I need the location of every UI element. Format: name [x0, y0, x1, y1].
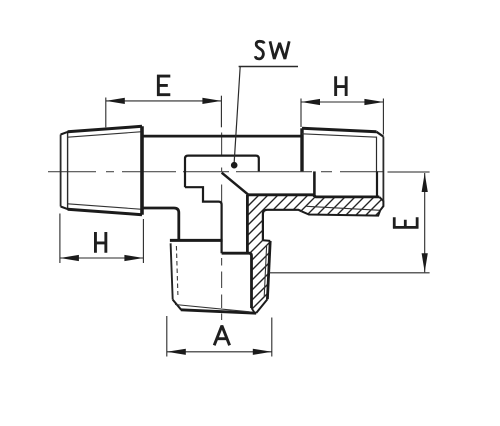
left stud: face line	[60, 135, 62, 207]
dimension H (top right): arrows	[301, 99, 320, 105]
right stud: right edge	[382, 137, 384, 202]
vertical centerline	[221, 133, 223, 321]
bottom stud: hidden thread (dashed)	[176, 246, 178, 295]
SW hex block outline	[185, 156, 259, 188]
bottom stud: bottom edge	[181, 310, 256, 313]
label E (right, rotated)	[393, 217, 419, 228]
left stud: thread crest top	[68, 132, 142, 138]
bottom stud: bottom-left chamfer	[173, 300, 182, 310]
bottom stud bore chamfer	[252, 308, 255, 313]
right stud: thread crest line	[302, 134, 377, 137]
right stud thread crest bottom (section)	[302, 210, 380, 215]
dimension E (top): extension lines	[106, 96, 222, 128]
label E (top)	[157, 75, 170, 96]
horizontal centerline	[48, 171, 430, 173]
body: bottom edge with fillet to bottom stud neck	[142, 208, 179, 240]
body: top edge	[142, 135, 302, 138]
left stud: right edge (body junction)	[140, 126, 144, 214]
SW hex block steps	[185, 187, 222, 253]
bottom stud: left edge	[171, 243, 173, 299]
left stud: top-left chamfer	[61, 132, 68, 135]
bottom stud outer edge right (section)	[267, 241, 270, 299]
left stud: bottom-left chamfer	[61, 207, 68, 210]
right stud: chamfer section edge lower	[376, 171, 378, 197]
label H (bottom left)	[95, 232, 105, 253]
bottom stud: end face ellipse line	[175, 305, 250, 312]
label H (top right)	[336, 76, 347, 96]
bottom stud bottom-right chamfer	[256, 299, 267, 313]
SW leader line	[234, 67, 240, 163]
label SW with underline	[255, 41, 289, 59]
right stud thread root line (section)	[307, 206, 381, 210]
left stud: thread crest bottom	[68, 204, 142, 210]
dimension E (right): arrows	[422, 173, 428, 192]
dimension H (top right): extension+dim lines	[301, 99, 383, 135]
right hex flat line in section	[313, 171, 316, 197]
dimension H (bottom left): extension+dim lines	[60, 214, 143, 264]
dimension H (bottom left): arrows	[60, 255, 79, 261]
section: right arm bore line with thread jog	[248, 195, 379, 197]
section: bottom port flat + lower bore wall	[222, 253, 252, 308]
bottom stud: hex top edge (external half)	[170, 239, 223, 242]
right stud end chamfers in section	[379, 197, 383, 210]
right stud: top edge	[302, 128, 377, 132]
right stud: left edge (hex)	[300, 128, 303, 171]
left stud: bottom edge	[68, 209, 142, 215]
left stud: chamfer cone line	[67, 132, 69, 209]
section: upper bore wall of bottom port	[246, 195, 249, 253]
neck underside with fillet	[263, 210, 302, 241]
left stud: top edge	[68, 126, 142, 132]
dimension E (right): extension+dim lines	[269, 173, 430, 273]
dimension E (top): arrows	[106, 98, 125, 104]
dimension A (bottom): arrows	[167, 349, 186, 355]
dimension A (bottom): extension+dim lines	[167, 316, 272, 357]
SW leader dot	[231, 162, 238, 169]
right stud: top-right chamfer	[377, 132, 384, 137]
label A (bottom)	[214, 326, 229, 346]
bottom stud thread root (section)	[264, 246, 266, 297]
section boundary diagonal	[222, 173, 249, 195]
hatching (section)	[109, 158, 443, 325]
step to bottom hex OD	[263, 239, 270, 242]
right stud: chamfer cone line	[376, 137, 378, 172]
